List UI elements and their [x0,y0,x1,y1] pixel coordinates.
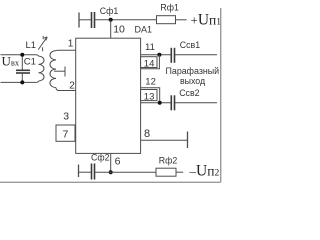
node pin11/14 junction [157,53,161,57]
svg-text:10: 10 [113,24,125,36]
inductor L1 right winding [50,51,56,88]
svg-text:DA1: DA1 [135,24,153,34]
wire pin 14 connector [141,55,160,69]
svg-text:13: 13 [144,91,155,102]
wire pin 13 [141,102,172,104]
wire bottom rail left [79,171,92,173]
svg-text:11: 11 [145,42,155,53]
capacitor C-sv1 [171,48,174,63]
svg-text:C1: C1 [24,57,36,68]
wire pin 8 [141,139,188,141]
input terminal bar bottom [78,165,80,178]
svg-text:Парафазный: Парафазный [166,66,220,76]
pin 13 box [141,90,158,101]
wire input bottom [1,81,39,82]
wire pin 10 lead [110,20,112,38]
wire pin 6 lead [110,153,112,172]
wire pin 2 lead [56,88,76,91]
wire input top [1,55,39,56]
trimmer arrow of L1 [38,37,47,50]
svg-text:1: 1 [68,38,74,49]
wire right of R-f2 [176,171,183,173]
capacitor C-f2 [92,164,95,180]
node pin13/12 junction [158,101,162,105]
inductor L1 left winding [39,56,45,81]
capacitor C-f1 [92,12,95,28]
svg-text:Ссв1: Ссв1 [180,40,200,50]
svg-text:3: 3 [63,111,69,123]
pin 14 box [141,57,158,68]
pin 7 box [56,125,75,141]
op-amp U1 (IC DA1 box) [76,38,141,153]
svg-text:Rф2: Rф2 [159,155,178,165]
wire bottom rail [95,171,157,173]
input terminal bar top [78,13,80,28]
frame border right [220,8,222,182]
svg-text:14: 14 [144,58,155,69]
svg-text:8: 8 [144,128,150,140]
svg-text:выход: выход [180,76,205,86]
svg-text:Сф2: Сф2 [91,153,110,163]
resistor R-f2 [156,168,176,176]
resistor R-f1 [157,16,176,24]
node pin6 junction [109,170,113,174]
svg-text:2: 2 [69,81,75,92]
node C1 bottom [20,80,24,84]
svg-text:6: 6 [115,155,121,167]
wire top rail to resistor [95,19,157,21]
svg-text:Ссв2: Ссв2 [179,88,199,98]
node C1 top [20,53,24,57]
wire pin 11 [141,54,172,56]
capacitor C1 [21,55,23,70]
node pin10 junction [109,18,113,22]
svg-text:7: 7 [63,129,69,141]
svg-text:Сф1: Сф1 [100,6,119,16]
terminal bar pin 8 [187,132,189,149]
svg-text:L1: L1 [26,40,37,51]
svg-text:Rф1: Rф1 [160,3,179,13]
frame border bottom [0,181,221,183]
core tap of L1 [54,70,65,72]
capacitor C-sv2 [171,95,174,110]
wire pin 12 [141,88,160,103]
wire right of R-f1 [176,19,187,21]
svg-text:12: 12 [145,77,156,88]
wire pin 1 lead [56,49,76,52]
wire top rail left of C-f1 [79,19,91,21]
